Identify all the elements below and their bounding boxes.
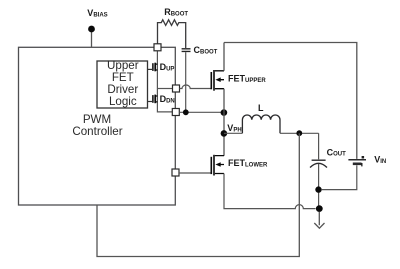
- wire UGATE to upper FET gate with hop: [180, 85, 212, 89]
- pin pad LGATE: [172, 169, 179, 176]
- wire battery bottom to ground rail: [322, 165, 357, 189]
- wire upper FET source down through phase to lower FET drain: [223, 89, 225, 156]
- svg-text:Controller: Controller: [72, 125, 122, 138]
- wire internal BOOT to driver rail: [157, 51, 172, 112]
- wire CBOOT down to phase node: [185, 52, 187, 112]
- transistor FET_LOWER: [211, 155, 224, 176]
- wire upper FET drain to top rail: [223, 43, 225, 71]
- svg-text:L: L: [258, 103, 264, 113]
- svg-text:FET: FET: [112, 71, 134, 84]
- resistor RBOOT: [158, 20, 186, 48]
- capacitor CBOOT: [182, 49, 191, 52]
- transistor D_DN: [153, 95, 158, 104]
- wire bottom return loop: [97, 133, 299, 256]
- wire VBIAS stub: [91, 29, 93, 47]
- wire PHASE pin to phase node: [179, 111, 224, 113]
- node VBIAS: [88, 26, 95, 33]
- wire D_UP gate: [148, 68, 153, 70]
- node output: [296, 130, 302, 136]
- wire lower FET gate: [179, 172, 211, 174]
- node ground junction: [316, 205, 323, 212]
- node COUT bottom junction: [315, 186, 321, 192]
- svg-text:Logic: Logic: [109, 95, 137, 108]
- svg-text:Driver: Driver: [107, 83, 138, 96]
- wire output node down to COUT: [318, 133, 320, 159]
- pin pad UGATE: [173, 85, 180, 92]
- battery minus mark: [361, 163, 362, 166]
- driver logic box U1: [97, 61, 148, 108]
- wire phase to inductor: [224, 132, 242, 134]
- wire D_DN gate: [148, 101, 153, 103]
- transistor D_UP: [153, 63, 158, 72]
- inductor L: [242, 115, 280, 133]
- PWM controller box: [19, 47, 176, 205]
- battery plus mark: [362, 156, 365, 159]
- wire top rail and VIN right edge: [224, 43, 357, 159]
- transistor FET_UPPER: [211, 70, 224, 91]
- node VPH: [221, 130, 228, 137]
- node phase junction upper: [221, 109, 228, 116]
- ground: [314, 212, 324, 228]
- svg-text:Upper: Upper: [107, 59, 139, 72]
- wire inductor to output node: [280, 132, 319, 134]
- wire internal driver output tap: [157, 88, 172, 90]
- pin pad BOOT: [154, 44, 161, 51]
- capacitor COUT: [312, 159, 326, 161]
- node CBOOT junction: [183, 109, 189, 115]
- battery VIN: [348, 159, 366, 161]
- wire lower FET source to ground rail with hop: [224, 174, 316, 209]
- wire COUT down to ground node: [318, 164, 320, 209]
- svg-text:PWM: PWM: [83, 113, 111, 126]
- pin pad PHASE: [172, 109, 179, 116]
